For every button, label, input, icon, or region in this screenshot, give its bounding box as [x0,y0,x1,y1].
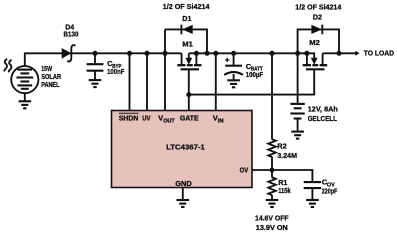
wire: rail down to R2 [271,53,273,139]
svg-text:GATE: GATE [180,114,199,123]
svg-text:100nF: 100nF [107,67,125,76]
capacitor CBYP [94,53,96,63]
diode D1 (body diode, cathode left) [182,25,193,34]
svg-text:R2: R2 [277,141,287,150]
wire: battery bottom lead [297,119,299,132]
ground: CBATT [227,80,240,87]
node: CBYP junction [93,51,98,56]
wire: M1 gate lead down to GATE pin [188,69,190,110]
svg-text:M2: M2 [309,38,320,47]
svg-text:1/2 OF Si4214: 1/2 OF Si4214 [163,2,211,11]
node: gate line junction [186,92,191,97]
MOSFET M1 body arrow [188,53,190,59]
svg-text:TO LOAD: TO LOAD [364,49,395,58]
node: battery / D2 anode junction [295,51,300,56]
TO LOAD arrowhead [355,51,359,56]
svg-text:OV: OV [240,165,249,174]
MOSFET M1 right stub (source) [195,53,197,64]
diode D1 branch top wire [165,29,207,53]
node: SHDN wire junction [127,51,132,56]
svg-text:GELCELL: GELCELL [308,114,337,123]
svg-text:PANEL: PANEL [41,80,60,89]
node: M2 drain stub junction [304,51,309,56]
solar panel PS1 circle [11,66,38,93]
node: VOUT / D1 anode-branch junction [163,51,168,56]
diode D4 (B130 Schottky) [62,48,71,59]
svg-text:M1: M1 [182,40,193,49]
svg-text:+: + [225,55,230,64]
svg-text:D1: D1 [182,14,192,23]
svg-text:13.9V ON: 13.9V ON [256,223,288,232]
MOSFET M2 left stub [306,53,308,64]
resistor R2 [268,139,276,157]
capacitor CBATT (polarized) [233,53,235,65]
svg-text:115k: 115k [278,186,291,195]
MOSFET M2 gate plate [306,68,325,70]
battery B1 12V 8Ah plates [290,104,304,119]
ground: GND pin [177,200,190,207]
svg-text:220pF: 220pF [322,186,338,195]
wire: main rail middle segment [189,52,315,54]
wire: SHDN pin [129,53,131,110]
wire: rail right segment to load [323,52,356,54]
ground: R1 [266,200,279,207]
wire: R1 bottom lead [271,195,273,200]
resistor R1 [268,177,276,195]
ground: CBYP [89,80,102,87]
node: D1 cathode-branch right junction [205,51,210,56]
MOSFET M1 gate plate [181,68,200,70]
wire: panel bottom lead [24,93,26,101]
wire: UV pin [146,53,148,110]
MOSFET M2 body arrow [313,53,315,59]
node: CBATT junction [231,51,236,56]
wire: OV pin to divider and COV [252,170,312,181]
svg-text:UV: UV [142,114,151,123]
node: D2 cathode junction [337,51,342,56]
diode D2 (body diode, cathode right) [311,25,322,34]
diode D2 branch [298,29,339,53]
ground: COV [306,200,319,207]
node: UV wire junction [145,51,150,56]
node: OV junction [270,168,275,173]
wire: VOUT pin and D1 left branch [164,29,166,110]
wire: main positive rail left segment (panel to M1 drain) [25,53,182,66]
svg-text:B130: B130 [64,30,79,39]
wire: GND pin lead [182,188,184,200]
MOSFET M1 left stub (drain) [181,53,183,64]
MOSFET M1 channel segments [177,64,201,66]
svg-text:14.6V OFF: 14.6V OFF [255,214,289,223]
wire: VIN pin [215,53,217,110]
light ray squiggles [4,59,7,72]
svg-text:IN: IN [218,118,224,124]
ground: solar panel [19,101,32,108]
node: M1 source stub junction [194,51,199,56]
wire: gate line to M2 [189,69,314,94]
svg-text:100µF: 100µF [246,70,263,79]
svg-text:LTC4367-1: LTC4367-1 [166,142,206,151]
svg-text:GND: GND [175,179,192,188]
MOSFET M2 channel segments [303,64,328,66]
svg-text:OUT: OUT [163,118,175,124]
wire: battery top lead [297,53,299,103]
solar panel internal cell bars [16,70,33,89]
node: VIN wire junction [213,51,218,56]
svg-text:12V, 8Ah: 12V, 8Ah [308,105,339,114]
wire: R2 to OV node [271,157,273,178]
capacitor COV [304,181,321,183]
svg-text:1/2 OF Si4214: 1/2 OF Si4214 [295,2,342,11]
MOSFET M2 right stub [322,53,324,64]
svg-text:D2: D2 [313,13,322,22]
svg-text:SHDN: SHDN [119,114,139,123]
ground: battery [291,132,304,139]
svg-text:3.24M: 3.24M [277,151,297,160]
node: R2 divider wire junction [270,51,275,56]
IC U1 LTC4367-1 body [112,111,253,188]
